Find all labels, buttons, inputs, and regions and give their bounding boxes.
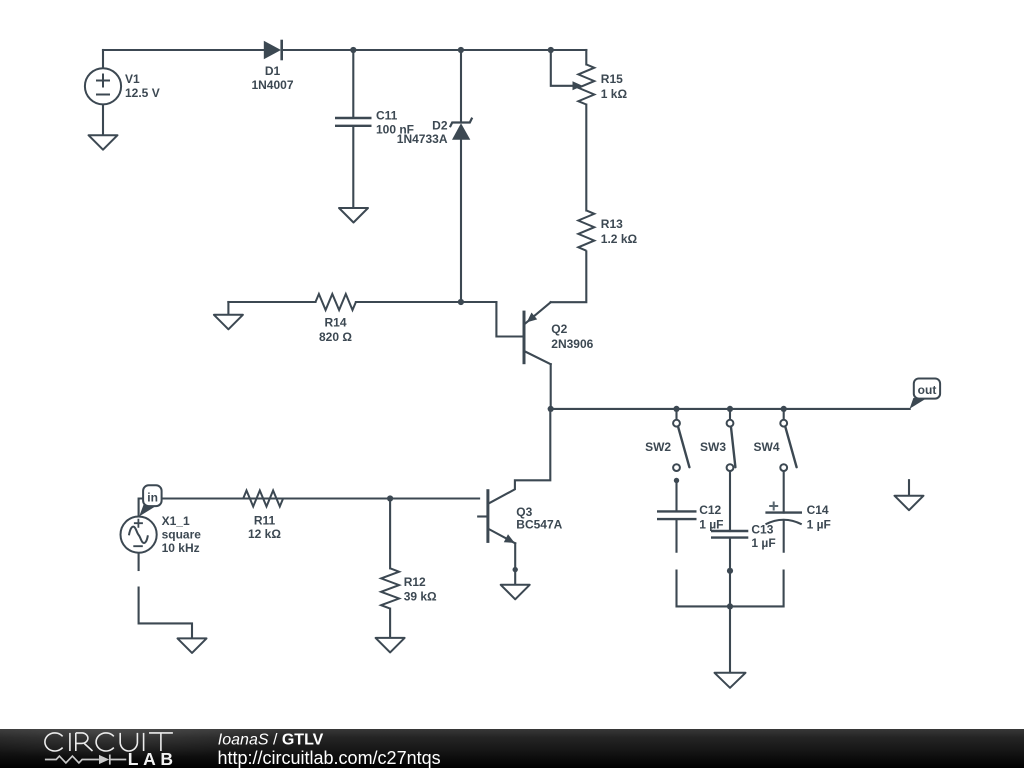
svg-text:square: square	[162, 528, 202, 542]
svg-text:C11: C11	[376, 109, 398, 123]
svg-text:SW4: SW4	[753, 440, 779, 454]
svg-text:C12: C12	[699, 503, 721, 517]
svg-text:R12: R12	[404, 575, 426, 589]
svg-text:in: in	[147, 491, 158, 505]
svg-text:SW2: SW2	[645, 440, 671, 454]
svg-text:12 kΩ: 12 kΩ	[248, 527, 281, 541]
svg-text:X1_1: X1_1	[162, 514, 190, 528]
svg-text:C14: C14	[807, 503, 829, 517]
svg-text:V1: V1	[125, 72, 140, 86]
svg-text:820 Ω: 820 Ω	[319, 330, 352, 344]
svg-text:1 kΩ: 1 kΩ	[601, 87, 628, 101]
svg-text:C13: C13	[751, 522, 773, 536]
svg-text:Q2: Q2	[551, 322, 567, 336]
svg-text:12.5 V: 12.5 V	[125, 86, 160, 100]
svg-text:1N4007: 1N4007	[251, 78, 293, 92]
svg-text:D1: D1	[265, 64, 281, 78]
svg-text:2N3906: 2N3906	[551, 337, 593, 351]
svg-text:SW3: SW3	[700, 440, 726, 454]
svg-text:1.2 kΩ: 1.2 kΩ	[601, 232, 638, 246]
svg-text:IoanaS / GTLV: IoanaS / GTLV	[218, 732, 324, 749]
svg-text:39 kΩ: 39 kΩ	[404, 590, 437, 604]
svg-text:LAB: LAB	[128, 749, 178, 768]
svg-text:D2: D2	[432, 119, 448, 133]
svg-text:BC547A: BC547A	[516, 517, 562, 531]
svg-text:out: out	[918, 383, 937, 397]
svg-text:R13: R13	[601, 217, 623, 231]
svg-text:http://circuitlab.com/c27ntqs: http://circuitlab.com/c27ntqs	[218, 748, 441, 768]
svg-text:R14: R14	[324, 316, 346, 330]
svg-text:1 µF: 1 µF	[807, 517, 831, 531]
svg-text:1N4733A: 1N4733A	[397, 132, 448, 146]
svg-text:10 kHz: 10 kHz	[162, 541, 200, 555]
svg-text:1 µF: 1 µF	[699, 517, 723, 531]
svg-text:1 µF: 1 µF	[751, 536, 775, 550]
svg-text:R11: R11	[254, 513, 276, 527]
svg-text:R15: R15	[601, 72, 623, 86]
